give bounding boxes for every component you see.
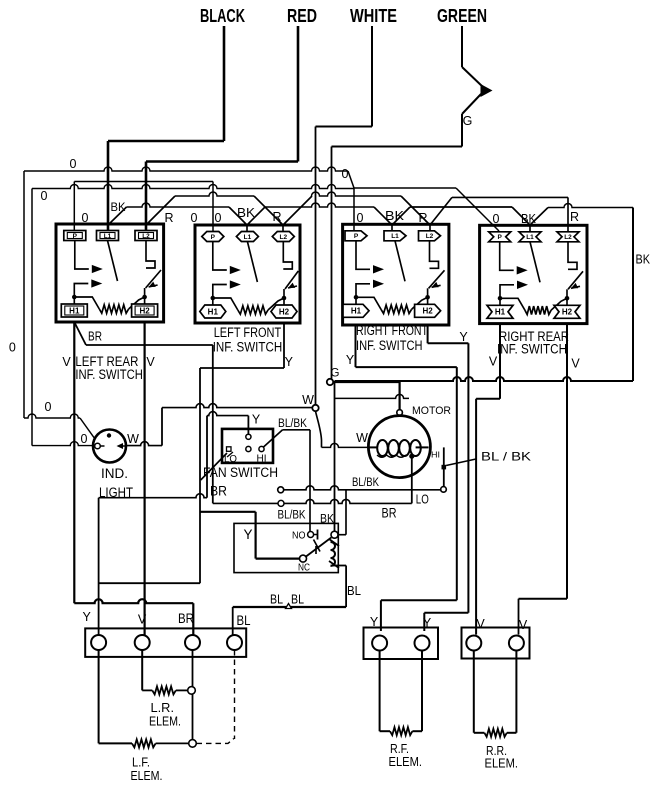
svg-text:P: P xyxy=(211,234,216,241)
label V at H2 S4 xyxy=(571,357,580,371)
svg-text:V: V xyxy=(146,355,155,369)
svg-text:0: 0 xyxy=(9,341,16,355)
svg-text:0: 0 xyxy=(45,400,52,414)
label FAN SWITCH xyxy=(203,465,278,480)
label BR at fan xyxy=(210,484,227,499)
svg-text:WHITE: WHITE xyxy=(350,6,397,26)
label Y at H2 S3 xyxy=(459,330,468,344)
node W connector (white disconnect) xyxy=(312,405,318,411)
svg-text:ELEM.: ELEM. xyxy=(485,756,519,771)
label 0 on bus3 xyxy=(41,189,48,203)
terminal block R.R. (V V) xyxy=(462,628,530,659)
label BK at S1 xyxy=(111,200,126,214)
wire BL/BK line A to relay common xyxy=(338,490,346,535)
wire W from light to white connector xyxy=(126,404,312,446)
svg-text:L2: L2 xyxy=(426,233,434,240)
svg-text:P: P xyxy=(498,234,503,241)
svg-text:0: 0 xyxy=(215,211,222,225)
svg-text:P: P xyxy=(73,233,78,240)
svg-text:H1: H1 xyxy=(208,307,219,316)
svg-text:V: V xyxy=(476,617,485,631)
svg-text:Y: Y xyxy=(346,353,355,367)
label V at H1 S1 xyxy=(62,355,71,369)
wire BLACK supply to L1 of S1 xyxy=(108,26,224,231)
label V at H2 S1 xyxy=(146,355,155,369)
svg-text:BK: BK xyxy=(636,252,651,267)
label 0 at P4 xyxy=(493,212,500,226)
svg-text:L2: L2 xyxy=(280,234,288,241)
node BL inline connector xyxy=(286,604,292,609)
label Y at R.F. block right xyxy=(423,616,432,630)
label W at white connector xyxy=(302,393,314,407)
wire BL from relay coil to terminal block xyxy=(233,566,346,637)
wire R chain L2 distribution xyxy=(146,192,568,231)
infinite switch S4 (RIGHT REAR INF. SWITCH) xyxy=(480,225,587,323)
svg-text:W: W xyxy=(356,431,368,445)
svg-text:0: 0 xyxy=(81,432,88,446)
wire label GREEN xyxy=(437,6,487,26)
terminal block R.F. (Y Y) xyxy=(364,628,439,660)
fan switch xyxy=(222,429,273,465)
svg-text:0: 0 xyxy=(70,157,77,171)
svg-text:L1: L1 xyxy=(244,234,252,241)
wire Y from H2 S3 to R.F. element block xyxy=(424,325,468,631)
label BK at relay xyxy=(320,514,334,526)
label BR at motor xyxy=(382,506,397,521)
wire Y vertical to terminal block xyxy=(98,498,100,636)
label 0 at P2 (right) xyxy=(215,211,222,225)
label LO at motor xyxy=(416,493,429,507)
svg-text:L2: L2 xyxy=(142,233,150,240)
wire BK chain L1 distribution xyxy=(108,203,633,231)
svg-text:P: P xyxy=(354,233,359,240)
wire P3 feed xyxy=(353,188,355,231)
label BL at relay xyxy=(347,583,361,598)
svg-text:BL: BL xyxy=(291,592,304,607)
svg-text:H2: H2 xyxy=(422,307,433,316)
svg-text:R: R xyxy=(570,210,579,224)
label BR near S1 xyxy=(88,329,102,344)
svg-text:HI: HI xyxy=(257,454,267,465)
label NO xyxy=(292,530,306,542)
wire label RED xyxy=(287,6,317,26)
svg-text:BK: BK xyxy=(111,200,126,214)
svg-text:W: W xyxy=(127,432,139,446)
resistor L.F. ELEM. xyxy=(99,650,197,747)
label L.F. ELEM. xyxy=(131,755,163,784)
label V at terminal block xyxy=(138,613,147,627)
svg-text:H1: H1 xyxy=(69,306,80,315)
label NC xyxy=(298,562,310,574)
relay NO contact xyxy=(308,530,318,540)
relay NC contact and arm xyxy=(300,538,332,563)
svg-text:Y: Y xyxy=(243,527,252,542)
svg-text:H2: H2 xyxy=(279,307,290,316)
infinite switch S2 (LEFT FRONT INF. SWITCH) xyxy=(195,225,300,323)
label V at R.R. block right xyxy=(519,618,528,632)
label IND. LIGHT xyxy=(99,466,133,500)
svg-text:BL/BK: BL/BK xyxy=(352,477,379,489)
svg-text:BLACK: BLACK xyxy=(200,6,245,26)
svg-text:Y: Y xyxy=(83,610,92,624)
svg-text:LO: LO xyxy=(416,493,429,507)
wire BR from H1 S1 to H1 S2 xyxy=(74,322,213,345)
svg-text:Y: Y xyxy=(285,355,294,369)
svg-text:0: 0 xyxy=(41,189,48,203)
svg-text:W: W xyxy=(302,393,314,407)
label 0 at P2 (left) xyxy=(191,211,198,225)
wire BL dashed jumper xyxy=(197,650,235,743)
wire BL/BK motor HI line xyxy=(278,447,447,492)
wire 0 bus2 (P1-P2) xyxy=(74,181,213,183)
label G at ground connector xyxy=(331,368,340,380)
svg-text:BK: BK xyxy=(237,206,256,220)
label BK at S4 xyxy=(521,212,537,226)
svg-text:BL: BL xyxy=(237,613,251,628)
svg-text:ELEM.: ELEM. xyxy=(149,714,181,729)
label S1 LEFT REAR INF. SWITCH xyxy=(75,354,142,382)
wire Y from H1 S3 to R.F. element block xyxy=(356,325,457,631)
svg-text:NC: NC xyxy=(298,562,310,574)
wire GREEN supply with ground arrow xyxy=(332,26,493,379)
wire V from H1 S4 to R.R. element block xyxy=(476,324,500,635)
svg-text:LEFT FRONT: LEFT FRONT xyxy=(214,325,282,340)
label BL right of connector xyxy=(291,592,304,607)
wire BR/LO line to motor tap xyxy=(213,456,412,503)
wire label WHITE xyxy=(350,6,397,26)
svg-text:RED: RED xyxy=(287,6,317,26)
label 0 on left vertical xyxy=(9,341,16,355)
label R at S3 xyxy=(418,211,427,225)
svg-text:L1: L1 xyxy=(104,233,112,240)
label BL at terminal block xyxy=(237,613,251,628)
label R.F. ELEM. xyxy=(389,741,423,769)
wire 0 bus1 (top) xyxy=(24,167,354,188)
label Y at terminal block xyxy=(83,610,92,624)
svg-text:BR: BR xyxy=(88,329,102,344)
label 0 at light xyxy=(81,432,88,446)
svg-text:ELEM.: ELEM. xyxy=(389,754,423,769)
resistor R.R. ELEM. xyxy=(474,651,517,737)
motor xyxy=(368,410,440,478)
svg-text:R: R xyxy=(164,211,173,225)
label V at H1 S4 xyxy=(489,355,498,369)
svg-text:BL/BK: BL/BK xyxy=(278,418,307,430)
svg-text:BL/BK: BL/BK xyxy=(278,510,306,522)
wire motor ground from G connector xyxy=(335,382,400,410)
svg-text:0: 0 xyxy=(191,211,198,225)
svg-text:V: V xyxy=(62,355,71,369)
label R.R. ELEM. xyxy=(485,743,519,771)
label Y at R.F. block left xyxy=(370,615,379,629)
node G ground connector xyxy=(327,379,333,385)
label Y at fan switch xyxy=(252,413,261,427)
svg-text:L2: L2 xyxy=(564,234,572,241)
relay box xyxy=(234,523,338,572)
svg-text:Y: Y xyxy=(252,413,261,427)
label Y at H1 S3 xyxy=(346,353,355,367)
wire Y to relay NC xyxy=(200,512,300,559)
svg-text:ELEM.: ELEM. xyxy=(131,768,163,783)
svg-text:V: V xyxy=(138,613,147,627)
label S2 LEFT FRONT INF. SWITCH xyxy=(213,325,283,355)
label MOTOR xyxy=(412,405,451,417)
label W at light xyxy=(127,432,139,446)
svg-text:BL: BL xyxy=(270,592,283,607)
wire BR from H1 S2 down to motor LO line xyxy=(212,345,214,503)
svg-text:BK: BK xyxy=(385,209,405,223)
label 0 at P1 xyxy=(82,211,89,225)
svg-text:HI: HI xyxy=(431,450,440,460)
wire 0 left vertical to light xyxy=(24,171,95,439)
svg-text:H2: H2 xyxy=(139,306,150,315)
wire P1 feed xyxy=(73,182,75,232)
wire BL/BK fan HI to relay NO xyxy=(264,430,311,531)
indicator light IND. LIGHT xyxy=(93,430,126,463)
svg-text:G: G xyxy=(463,114,473,128)
svg-text:H1: H1 xyxy=(495,308,506,317)
svg-text:V: V xyxy=(519,618,528,632)
label 0 at bus1 step xyxy=(342,167,349,181)
wire W to motor xyxy=(316,411,369,447)
wire V from H1 of S1 to terminal block xyxy=(74,322,193,636)
label 0 above light feed xyxy=(45,400,52,414)
label BL left of connector xyxy=(270,592,283,607)
svg-text:BR: BR xyxy=(178,611,194,626)
wire 0 second left vertical to light xyxy=(32,189,93,446)
label G (green wire) xyxy=(463,114,473,128)
svg-text:INF. SWITCH: INF. SWITCH xyxy=(213,340,283,355)
label Y at H2 S2 xyxy=(285,355,294,369)
wire P2 feed xyxy=(212,182,214,232)
wire V from H2 S4 to R.R. element block xyxy=(519,324,568,635)
svg-text:L1: L1 xyxy=(391,233,399,240)
label S4 RIGHT REAR INF. SWITCH xyxy=(497,329,569,357)
label BL/BK at fan xyxy=(278,418,307,430)
svg-text:GREEN: GREEN xyxy=(437,6,487,26)
svg-text:V: V xyxy=(571,357,580,371)
label R at S1 xyxy=(164,211,173,225)
svg-text:BL: BL xyxy=(347,583,361,598)
label W at motor xyxy=(356,431,368,445)
resistor L.R. ELEM. xyxy=(142,650,195,694)
wire BR element vertical xyxy=(192,650,194,740)
wire BK from chain around right side to relay xyxy=(335,208,634,532)
wire V from H2 of S1 to terminal block xyxy=(144,322,146,636)
label V at R.R. block left xyxy=(476,617,485,631)
resistor R.F. ELEM. xyxy=(380,651,422,736)
svg-text:BL / BK: BL / BK xyxy=(481,450,531,464)
label S3 RIGHT FRONT INF. SWITCH xyxy=(356,323,428,353)
svg-text:IND.: IND. xyxy=(101,466,128,481)
label BK at S2 xyxy=(237,206,256,220)
svg-text:0: 0 xyxy=(342,167,349,181)
infinite switch S3 (RIGHT FRONT INF. SWITCH) xyxy=(343,224,449,325)
wire WHITE supply xyxy=(316,26,373,405)
label Y at relay xyxy=(243,527,252,542)
label 0 on bus1 xyxy=(70,157,77,171)
svg-text:Y: Y xyxy=(459,330,468,344)
label BK right side xyxy=(636,252,651,267)
svg-text:V: V xyxy=(489,355,498,369)
wire Y branch to fan switch xyxy=(99,412,249,498)
svg-text:BR: BR xyxy=(210,484,227,499)
svg-text:INF. SWITCH: INF. SWITCH xyxy=(75,367,142,382)
svg-text:G: G xyxy=(331,368,340,380)
svg-text:INF. SWITCH: INF. SWITCH xyxy=(497,342,567,357)
svg-text:LIGHT: LIGHT xyxy=(99,485,133,500)
svg-text:R: R xyxy=(272,210,281,224)
label BL/BK on motor HI line xyxy=(352,477,379,489)
label R at S2 xyxy=(272,210,281,224)
label BL/BK at relay xyxy=(278,510,306,522)
callout BL/BK to motor HI wire xyxy=(442,450,532,470)
label BR at terminal block xyxy=(178,611,194,626)
label R at S4 xyxy=(570,210,579,224)
svg-text:BR: BR xyxy=(382,506,397,521)
node BR inline connector xyxy=(278,500,284,506)
svg-text:MOTOR: MOTOR xyxy=(412,405,451,417)
svg-text:INF. SWITCH: INF. SWITCH xyxy=(356,338,423,353)
relay coil xyxy=(329,539,339,568)
relay common terminal xyxy=(331,531,338,538)
label BK at S3 xyxy=(385,209,405,223)
wire fan LO to Y net xyxy=(201,453,227,480)
infinite switch S1 (LEFT REAR INF. SWITCH) xyxy=(56,224,164,322)
svg-text:H2: H2 xyxy=(562,308,573,317)
label L.R. ELEM. xyxy=(149,700,181,729)
wire RED supply to L2 of S1 xyxy=(146,26,298,231)
terminal block left (Y V BR BL) xyxy=(85,628,246,657)
svg-text:NO: NO xyxy=(292,530,306,542)
svg-text:RIGHT FRONT: RIGHT FRONT xyxy=(356,323,428,338)
svg-text:H1: H1 xyxy=(351,307,362,316)
label 0 at P3 xyxy=(357,211,364,225)
svg-text:LO: LO xyxy=(224,454,237,465)
wire Y from H2 S2 xyxy=(99,323,284,583)
wire 0 bus3 xyxy=(32,185,499,232)
svg-text:L1: L1 xyxy=(526,234,534,241)
wire label BLACK xyxy=(200,6,245,26)
